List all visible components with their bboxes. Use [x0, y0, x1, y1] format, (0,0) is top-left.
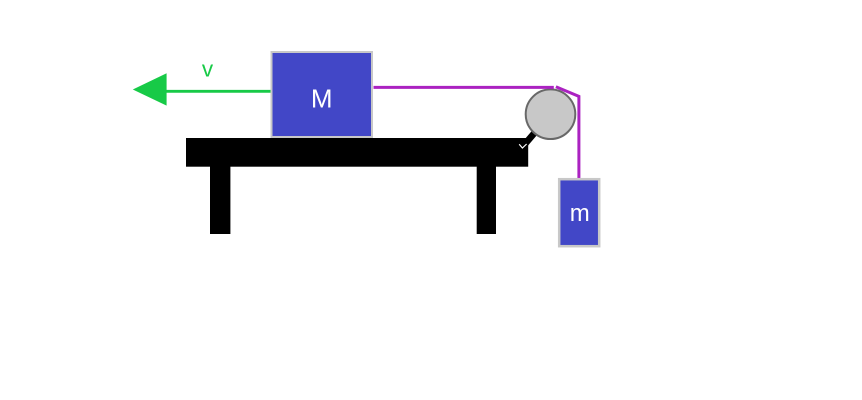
table right leg — [477, 166, 496, 234]
svg-text:m: m — [570, 200, 590, 227]
block m — [559, 179, 599, 246]
pulley P — [526, 89, 576, 139]
white notch at strut base — [519, 144, 526, 148]
string over pulley — [374, 86, 554, 89]
svg-text:M: M — [311, 83, 333, 113]
pulley strut — [523, 114, 551, 146]
block M — [272, 52, 373, 137]
velocity arrow head — [133, 73, 167, 105]
velocity arrow shaft — [166, 90, 271, 93]
string bend over pulley and down to m — [556, 87, 579, 179]
table left leg — [210, 166, 230, 234]
table top — [186, 138, 528, 167]
svg-text:v: v — [202, 57, 214, 82]
